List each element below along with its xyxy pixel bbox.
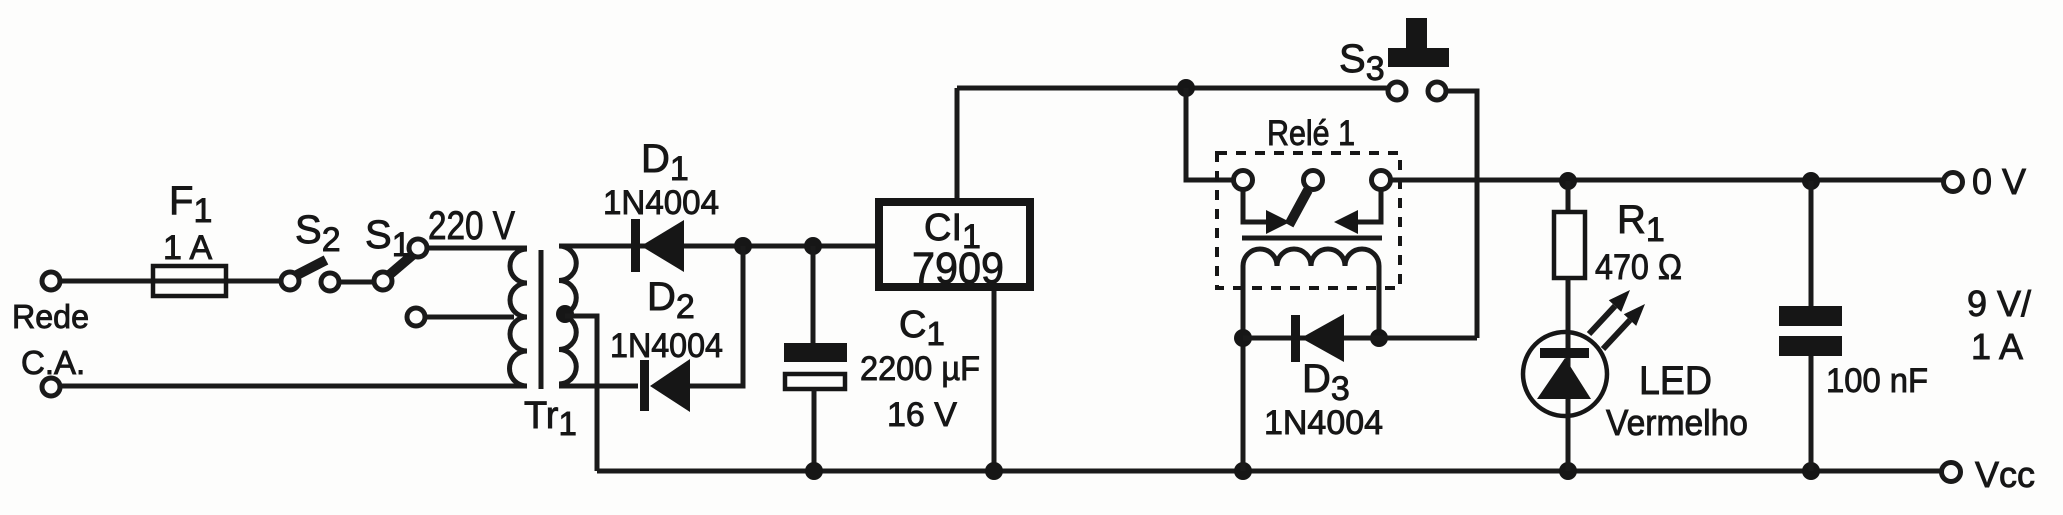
svg-text:0 V: 0 V [1972,161,2026,202]
svg-text:1 A: 1 A [163,229,212,267]
svg-text:1N4004: 1N4004 [1264,404,1383,442]
svg-text:1N4004: 1N4004 [603,184,719,222]
svg-text:470 Ω: 470 Ω [1595,248,1682,287]
svg-text:16 V: 16 V [887,396,957,434]
svg-text:Relé 1: Relé 1 [1267,114,1355,153]
svg-text:C.A.: C.A. [21,344,85,381]
svg-text:9 V/: 9 V/ [1967,283,2031,324]
svg-text:1 A: 1 A [1971,326,2023,367]
svg-text:1N4004: 1N4004 [610,327,723,365]
svg-text:220 V: 220 V [428,204,515,248]
svg-text:LED: LED [1639,359,1712,403]
svg-text:Rede: Rede [12,298,89,335]
svg-text:7909: 7909 [912,244,1004,293]
svg-text:Vermelho: Vermelho [1606,402,1748,443]
svg-text:Vcc: Vcc [1975,454,2035,495]
svg-text:2200 µF: 2200 µF [860,350,980,388]
svg-text:100 nF: 100 nF [1826,362,1928,400]
